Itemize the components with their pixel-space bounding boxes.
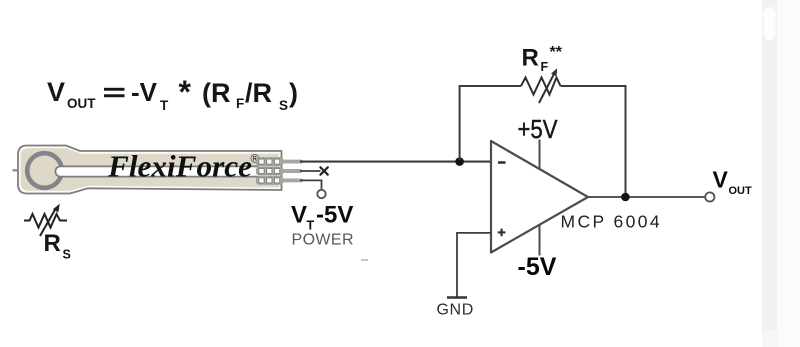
node junction at output [621,193,630,202]
svg-text:*: * [179,74,192,110]
svg-text:**: ** [550,44,563,61]
svg-text:OUT: OUT [729,185,753,197]
resistor RF zigzag [521,78,561,95]
pin 3 [283,178,301,182]
connector block row 3 [257,177,284,185]
label Vt -5V [291,202,353,233]
svg-text:POWER: POWER [292,232,354,249]
pin 1 [283,160,301,164]
wire pin1 to inverting input [300,161,491,163]
svg-text:R: R [44,230,61,257]
sensor sensing pad ring [27,153,62,188]
svg-text:-5V: -5V [316,202,353,229]
sensor left edge notch [13,169,19,171]
svg-text:): ) [289,78,298,108]
positive supply stub [539,140,541,170]
wire pin3 to Vt terminal [300,180,322,189]
no-connect X mark [320,167,327,174]
formula label Vout = -Vt * (Rf/Rs) [47,74,298,113]
svg-text:-V: -V [131,77,158,107]
label RS [44,230,71,262]
svg-text:(R: (R [202,78,231,108]
op-amp U1 triangle [491,141,588,253]
svg-text:OUT: OUT [67,96,96,111]
resistor RF arrow [539,72,555,103]
resistor RS zigzag [24,214,67,228]
sensor FlexiForce body outline [18,146,282,194]
connector block row 1 [257,158,284,166]
resistor RS arrow [40,208,56,236]
wire feedback right vertical [561,86,626,196]
svg-text:F: F [541,60,549,74]
svg-text:+5V: +5V [518,114,559,144]
node junction at inverting input [455,157,464,166]
negative supply stub [539,225,541,256]
scrollbar track right side [762,0,800,347]
wire feedback left vertical [460,86,521,160]
svg-text:V: V [291,202,307,229]
connector block row 2 [257,167,284,175]
sensor trace channel [55,166,258,176]
svg-text:-5V: -5V [518,253,557,281]
inverting input minus [498,161,506,164]
label RF [522,44,563,74]
pin 2 [283,169,300,173]
svg-text:F: F [236,96,244,111]
svg-text:MCP 6004: MCP 6004 [561,211,663,231]
svg-text:S: S [279,98,288,113]
label Vout [713,167,753,197]
wire output [588,196,706,198]
terminal Vt open circle [317,190,325,198]
svg-text:GND: GND [437,302,474,319]
wire non-inverting input to ground [457,233,491,297]
svg-text:S: S [63,248,71,262]
sensor inner laminate [21,148,279,191]
non-inverting input plus [498,229,506,237]
svg-text:/R: /R [245,78,272,108]
faint stray mark [361,259,368,261]
wire pin2 stub [300,170,321,172]
svg-text:T: T [307,219,315,233]
terminal Vout open circle [705,192,714,201]
svg-text:V: V [47,77,65,107]
svg-text:FlexiForce: FlexiForce [107,149,252,184]
svg-text:V: V [713,167,729,193]
ground bar [447,296,467,299]
svg-text:T: T [160,98,169,113]
svg-text:R: R [522,45,539,72]
